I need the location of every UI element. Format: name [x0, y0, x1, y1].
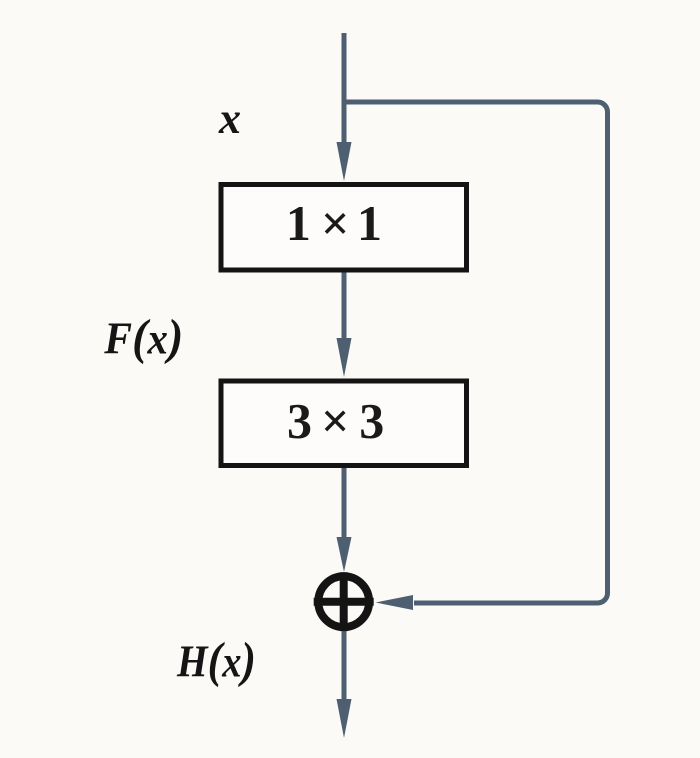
svg-text:1: 1: [286, 195, 311, 251]
svg-text:1: 1: [357, 195, 382, 251]
svg-text:F(x): F(x): [103, 309, 183, 365]
svg-text:H(x): H(x): [176, 632, 256, 688]
svg-text:3: 3: [359, 393, 384, 449]
svg-text:3: 3: [287, 393, 312, 449]
svg-text:x: x: [218, 94, 241, 143]
svg-text:×: ×: [321, 393, 350, 449]
svg-text:×: ×: [321, 195, 350, 251]
